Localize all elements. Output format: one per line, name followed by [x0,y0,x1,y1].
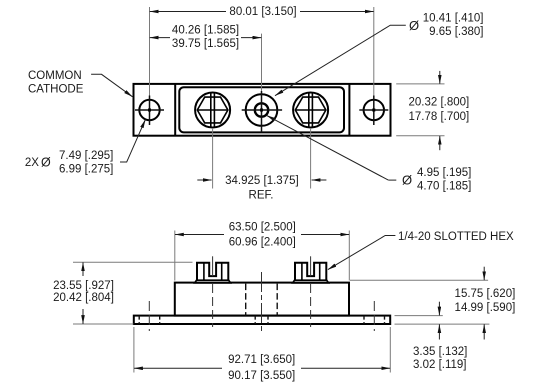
svg-text:6.99 [.275]: 6.99 [.275] [59,164,113,176]
side view: left screw center line through slot [212,256,214,276]
dimension 3.35 base top extension line [395,315,443,317]
left mounting hole crosshair horizontal [135,109,164,111]
svg-text:34.925 [1.375]: 34.925 [1.375] [225,175,299,187]
svg-text:14.99 [.590]: 14.99 [.590] [455,302,516,314]
left mounting hole crosshair vertical [149,96,151,126]
top view: right mounting hole [364,100,384,120]
side view: base plate [134,316,390,324]
dimension 34.925 right outside arrow [312,179,327,181]
side view: center terminal hidden lines in body [245,284,247,316]
svg-text:3.35 [.132]: 3.35 [.132] [413,346,467,358]
side view: vertical center line [261,272,263,333]
dimension 20.32 top arrow [439,71,441,84]
side view: right screw center line below (dashed) [310,284,312,327]
dimension 92.71 left extension line [133,327,135,373]
side view: right screw center line through slot [310,256,312,276]
dimension 15.75 top extension line (washer top level) [350,279,488,281]
side view: left mounting hole hidden lines in base [138,316,140,324]
dimension 80.01 line right segment [300,11,374,13]
side view: left screw hex facet lines [203,263,205,281]
svg-text:9.65 [.380]: 9.65 [.380] [429,26,483,38]
top view: left mounting hole [139,100,159,120]
top view: center terminal inner hole [255,103,268,116]
left hex screw mid line [197,109,228,111]
svg-text:7.49 [.295]: 7.49 [.295] [59,150,113,162]
svg-text:1/4-20 SLOTTED HEX: 1/4-20 SLOTTED HEX [398,231,514,243]
side view: center small hole hidden lines in base [254,316,256,324]
right mounting hole crosshair vertical [373,96,375,126]
dimension 63.50 line right segment [301,234,349,236]
svg-text:4.70 [.185]: 4.70 [.185] [417,181,471,193]
dimension 80.01 line left segment [150,11,226,13]
dimension 20.32 top extension line [396,83,444,85]
center terminal crosshair horizontal [242,109,282,111]
right hex screw slot lines [308,93,310,127]
dimension 92.71 line right segment [301,367,390,369]
dimension 23.55 top arrow [82,262,84,276]
side view: left screw head outline with slot [197,263,228,281]
left hex screw slot lines [210,93,212,127]
side view: left screw washer [195,280,231,283]
side view: body rectangle [175,283,349,316]
dimension 20.32 bottom arrow [439,136,441,150]
slotted hex leader [328,236,396,270]
dimension 20.32 bottom extension line [396,135,444,137]
2X dia leader [120,120,145,163]
right screw center line extending below body [310,128,312,189]
dimension 92.71 line left segment [134,367,222,369]
dimension 23.55 bottom extension line [73,323,134,325]
svg-text:3.02 [.119]: 3.02 [.119] [413,359,467,371]
svg-text:40.26 [1.585]: 40.26 [1.585] [172,24,239,36]
dimension 23.55 top extension line [73,261,193,263]
dimension 63.50 line left segment [175,234,224,236]
leader dia 10.41 [275,25,406,96]
svg-text:92.71 [3.650]: 92.71 [3.650] [228,354,295,366]
svg-text:4.95 [.195]: 4.95 [.195] [417,167,471,179]
top view: body rounded rectangle [179,87,344,132]
svg-text:60.96 [2.400]: 60.96 [2.400] [229,236,296,248]
side view: left screw center line below (dashed) [212,284,214,327]
dimension 63.50 right extension line [348,231,350,281]
right mounting hole crosshair horizontal [359,109,388,111]
side view: right screw hex facet lines [301,263,303,281]
svg-text:90.17 [3.550]: 90.17 [3.550] [228,370,295,382]
side view: left mounting hole center line [148,301,150,331]
dimension 3.35 bottom arrow [438,324,440,339]
left mounting hole center dot [148,109,151,112]
svg-text:39.75 [1.565]: 39.75 [1.565] [172,38,239,50]
left mounting hole extension line up to 80.01 dim [149,7,151,96]
side view: right screw washer [293,280,329,283]
top view: center terminal outer circle [246,94,278,126]
right hex screw hexagon [295,97,326,123]
leader dia 4.95 [388,179,396,181]
dimension 63.50 left extension line [174,231,176,281]
right mounting hole extension line up to 80.01 dim [373,7,375,96]
dimension 34.925 left outside arrow [197,179,211,181]
svg-text:80.01 [3.150]: 80.01 [3.150] [229,6,296,18]
top view: right hex screw outer circle [293,93,328,128]
side view: right mounting hole hidden lines in base [363,316,365,324]
top view: right body division line [348,84,350,136]
svg-text:17.78 [.700]: 17.78 [.700] [409,111,470,123]
right hex screw mid line [295,109,326,111]
svg-text:15.75 [.620]: 15.75 [.620] [455,288,516,300]
right mounting hole center dot [372,109,375,112]
svg-text:2X: 2X [25,157,39,169]
svg-text:23.55 [.927]: 23.55 [.927] [53,280,114,292]
dimension 40.26 line right segment [241,37,261,39]
svg-text:COMMON: COMMON [28,70,82,82]
svg-text:Ø: Ø [409,18,419,33]
svg-text:63.50 [2.500]: 63.50 [2.500] [229,221,296,233]
top view: flange bar outline [134,84,391,136]
top view: left hex screw outer circle [195,93,230,128]
base bottom extension line [395,323,490,325]
common cathode leader [91,74,132,96]
svg-text:Ø: Ø [41,156,51,170]
dimension 15.75 top arrow [483,267,485,280]
side view: right mounting hole center line [373,301,375,331]
dimension 23.55 bottom arrow [82,309,84,324]
side view: right screw head outline with slot [295,263,326,281]
center terminal center dot [260,109,263,112]
svg-text:10.41 [.410]: 10.41 [.410] [423,13,484,25]
svg-text:CATHODE: CATHODE [28,84,84,96]
dimension 15.75 bottom arrow [483,324,485,339]
svg-text:Ø: Ø [402,172,412,187]
center terminal extension line up to 40.26 dim [261,34,263,91]
dimension 3.35 top arrow [438,302,440,316]
center terminal crosshair vertical [261,91,263,132]
svg-text:20.42 [.804]: 20.42 [.804] [53,292,114,304]
left hex screw hexagon [197,97,228,123]
left screw center line extending below body [212,128,214,189]
svg-text:REF.: REF. [249,190,274,202]
svg-text:20.32 [.800]: 20.32 [.800] [409,97,470,109]
dimension 40.26 line left segment [150,37,170,39]
top view: left body division line [174,84,176,136]
dimension 92.71 right extension line [389,327,391,373]
